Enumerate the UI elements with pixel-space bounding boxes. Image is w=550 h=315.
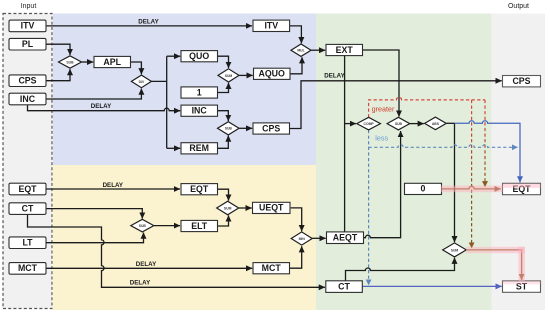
box CT input <box>9 203 46 215</box>
wire REM to SUB2 bottom <box>218 136 229 149</box>
svg-text:CPS: CPS <box>512 76 530 86</box>
region yellow (equipment section) <box>53 165 316 310</box>
glow ST box top <box>503 281 541 284</box>
wire blue ABS to EQT output top (hops at red dashes) <box>455 121 521 183</box>
wire EQT box to SUM2 top <box>218 189 229 200</box>
diamond DIV <box>131 75 151 88</box>
diamond COMP <box>357 117 381 130</box>
wire ABS output junction <box>446 122 454 124</box>
diamond SUM3 (CT+diff) <box>443 243 467 257</box>
svg-text:MCT: MCT <box>18 263 38 273</box>
box EXT <box>326 44 363 55</box>
wire EQT delay (EQT input to EQT box) <box>46 182 180 189</box>
svg-text:APL: APL <box>103 57 121 67</box>
svg-text:MIN: MIN <box>299 237 306 241</box>
box AQUO <box>254 68 291 79</box>
wire red dashed vertical to EQT line <box>484 100 486 187</box>
box ELT <box>181 220 218 231</box>
wire ELT to SUM2 bottom <box>218 215 229 226</box>
svg-text:DELAY: DELAY <box>324 73 345 80</box>
wire EXT bottom vertical to AEQT top <box>344 56 346 232</box>
wire AQUO to MUL bottom <box>290 57 302 74</box>
wire junction down to SUM3 top <box>454 123 456 242</box>
wire brown 0 to EQT output (hop at red dash) <box>442 186 501 189</box>
svg-text:DELAY: DELAY <box>103 182 124 189</box>
svg-text:REM: REM <box>189 143 209 153</box>
box INC delayed <box>181 105 218 116</box>
wire blue dashed horizontal to blue vertical (hops) <box>369 145 518 148</box>
wire ITV box to MUL top <box>290 26 302 43</box>
wire 1 to SUM1 bottom <box>218 83 229 93</box>
wire SUM1 to AQUO <box>239 74 253 76</box>
wire MIN to AEQT <box>312 237 325 239</box>
label Output <box>508 3 529 10</box>
diamond SUB1 (PL-CPS) <box>59 56 82 68</box>
glow EQT box top <box>503 184 541 188</box>
wire UEQT to MIN top <box>291 208 302 231</box>
wire DIV output trunk <box>151 56 166 148</box>
svg-text:AEQT: AEQT <box>333 233 358 243</box>
box MCT input <box>9 263 46 275</box>
wire trunk to REM <box>167 147 181 149</box>
svg-text:AQUO: AQUO <box>258 69 285 79</box>
region Input panel <box>3 14 52 309</box>
svg-text:CT: CT <box>22 203 34 213</box>
glow ST horizontal <box>466 247 525 253</box>
wire red dashed vertical to SUM3 output line <box>471 100 473 248</box>
svg-text:ELT: ELT <box>191 221 208 231</box>
wire LT to SUB4 bottom <box>46 233 144 243</box>
box CT mid <box>326 281 363 293</box>
svg-text:EXT: EXT <box>336 45 354 55</box>
svg-text:ITV: ITV <box>264 21 278 31</box>
wire red dashed greater path (COMP top, right, hop at x399) <box>369 97 485 117</box>
diamond SUB3 (EXT-AEQT) <box>387 117 410 130</box>
svg-text:DELAY: DELAY <box>136 261 157 268</box>
box CPS input <box>9 75 46 87</box>
wire SUB3 to ABS <box>410 123 424 125</box>
svg-text:SUB: SUB <box>395 122 403 126</box>
svg-text:0: 0 <box>421 184 426 194</box>
svg-text:SUM: SUM <box>224 206 232 210</box>
box ITV input <box>9 20 46 32</box>
wire INC delay (INC input to INC box, hop at x167) <box>28 103 181 111</box>
box EQT output <box>503 183 541 194</box>
svg-text:MCT: MCT <box>262 263 282 273</box>
svg-text:SUB: SUB <box>139 224 147 228</box>
wire blue dashed less path vertical to CT line <box>368 130 370 285</box>
box CPS output <box>503 76 541 87</box>
svg-text:SUM: SUM <box>451 248 459 252</box>
box EQT delayed <box>181 184 218 195</box>
wire APL to DIV top <box>131 62 142 74</box>
box UEQT <box>253 202 291 213</box>
svg-text:DELAY: DELAY <box>138 19 159 26</box>
wire branch to COMP left <box>345 123 356 125</box>
box CPS mid <box>253 123 290 134</box>
wire CPS delay (CPS box up and right to CPS output) <box>290 73 502 129</box>
diamond SUM1 (QUO+1) <box>218 69 239 82</box>
wire SUB1 to APL <box>82 61 94 63</box>
wire QUO to SUM1 top <box>218 56 229 68</box>
svg-text:1: 1 <box>197 87 202 97</box>
svg-text:INC: INC <box>192 106 208 116</box>
svg-text:DELAY: DELAY <box>130 280 151 287</box>
svg-text:SUM: SUM <box>225 74 233 78</box>
svg-text:Input: Input <box>21 3 37 10</box>
box 1 constant <box>181 87 218 98</box>
diamond ABS <box>425 117 447 130</box>
svg-text:ABS: ABS <box>432 122 440 126</box>
wire CT box top to SUM3 bottom (hop at blue dashed) <box>346 258 455 281</box>
box INC input <box>9 93 46 105</box>
wire PL to SUB1 top <box>46 44 70 55</box>
wire EXT right to SUB3 top <box>363 50 399 117</box>
diamond SUB4 (CT-LT) <box>131 219 154 232</box>
svg-text:SUB: SUB <box>225 127 233 131</box>
svg-text:QUO: QUO <box>189 51 209 61</box>
svg-text:DELAY: DELAY <box>91 103 112 110</box>
svg-text:greater: greater <box>372 105 395 114</box>
box ITV delayed <box>253 20 290 31</box>
wire trunk to QUO <box>167 55 181 57</box>
svg-text:INC: INC <box>20 94 36 104</box>
wire SUB2 to CPS box <box>239 127 252 129</box>
box REM <box>181 143 218 154</box>
wire MUL to EXT <box>311 49 325 51</box>
diamond SUM2 (EQT+ELT) <box>217 201 239 215</box>
label less <box>375 133 388 142</box>
svg-text:EQT: EQT <box>190 184 209 194</box>
box ST output <box>503 281 541 292</box>
wire AEQT to SUB3 bottom (hop at blue dashed) <box>364 131 401 238</box>
diamond SUB2 (INC-REM) <box>218 122 240 135</box>
svg-text:DIV: DIV <box>139 80 145 84</box>
svg-text:EQT: EQT <box>18 184 37 194</box>
svg-text:Output: Output <box>508 3 529 10</box>
diamond MUL <box>291 44 311 56</box>
label Input <box>21 3 37 10</box>
wire ITV delay (ITV input to ITV box) <box>46 19 252 26</box>
wire SUM2 to UEQT <box>239 207 252 209</box>
wire SUB4 to ELT <box>154 225 180 227</box>
box PL input <box>9 38 46 50</box>
region green (comparison section) <box>316 14 492 311</box>
svg-text:CPS: CPS <box>18 76 36 86</box>
wire CPS input to SUB1 bottom <box>46 69 70 81</box>
wire INC input to DIV bottom <box>46 89 141 99</box>
wire INC box to SUB2 top <box>218 111 229 121</box>
svg-text:PL: PL <box>22 39 34 49</box>
svg-text:CPS: CPS <box>262 123 280 133</box>
svg-text:LT: LT <box>22 238 33 248</box>
diamond MIN <box>291 232 312 245</box>
box APL <box>94 56 131 67</box>
wire CT input to SUB4 top <box>46 209 142 219</box>
svg-text:less: less <box>375 133 388 142</box>
box AEQT <box>327 232 364 244</box>
wire MCT delay (MCT input to MCT box) <box>46 261 252 268</box>
wire MCT box to MIN bottom <box>290 246 302 268</box>
glow ST vertical <box>519 247 525 281</box>
wire CT delay branch (down, right, down with hops, to CT box) <box>28 214 325 287</box>
svg-text:COMP: COMP <box>364 122 375 126</box>
region blue (division section) <box>53 14 316 166</box>
svg-text:CT: CT <box>338 281 350 291</box>
region Output panel <box>492 14 546 311</box>
svg-text:MUL: MUL <box>297 49 304 53</box>
box 0 constant <box>405 183 442 194</box>
box QUO <box>181 51 218 62</box>
svg-text:ITV: ITV <box>21 21 35 31</box>
svg-text:UEQT: UEQT <box>259 203 284 213</box>
wire violet CT to ST output <box>363 285 502 287</box>
box MCT delayed <box>253 263 290 274</box>
glow EQT line <box>441 186 503 193</box>
box EQT input <box>9 183 46 195</box>
svg-text:SUB: SUB <box>66 60 74 64</box>
label greater <box>372 105 395 114</box>
wire brown SUM3 to ST output top <box>467 250 522 280</box>
box LT input <box>9 237 46 249</box>
